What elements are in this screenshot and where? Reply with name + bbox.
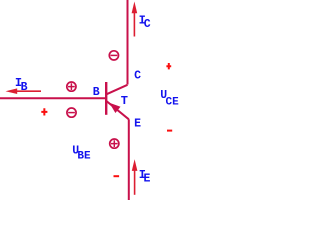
circled minus below base wire bbox=[67, 108, 76, 117]
plus sign below base wire left bbox=[41, 108, 47, 115]
svg-text:B: B bbox=[21, 81, 28, 94]
svg-text:E: E bbox=[134, 118, 141, 131]
svg-text:E: E bbox=[144, 173, 151, 186]
circled plus above base wire bbox=[67, 82, 76, 91]
circled minus at collector bbox=[109, 51, 118, 60]
plus sign right top (UCE +) bbox=[166, 63, 171, 69]
wire collector vertical bbox=[127, 0, 129, 85]
svg-text:C: C bbox=[144, 18, 151, 31]
transistor T emitter arrowhead (PNP, pointing to base) bbox=[109, 103, 120, 113]
current arrow IE bbox=[132, 159, 138, 195]
current arrow IB bbox=[6, 88, 42, 94]
minus sign right bottom (UCE -) bbox=[167, 130, 172, 132]
wire emitter diagonal bbox=[106, 101, 128, 119]
wire emitter vertical bbox=[128, 119, 130, 200]
wire collector diagonal bbox=[106, 85, 127, 95]
current arrow IC bbox=[132, 2, 138, 37]
wire base horizontal bbox=[0, 97, 106, 99]
minus sign near IE (UBE -) bbox=[114, 175, 120, 177]
svg-text:C: C bbox=[134, 69, 141, 82]
svg-text:T: T bbox=[121, 94, 128, 108]
svg-text:CE: CE bbox=[166, 96, 180, 108]
svg-text:B: B bbox=[93, 86, 100, 99]
svg-text:BE: BE bbox=[77, 151, 91, 163]
circled plus at emitter bbox=[110, 139, 119, 148]
transistor T base bar bbox=[105, 82, 107, 115]
